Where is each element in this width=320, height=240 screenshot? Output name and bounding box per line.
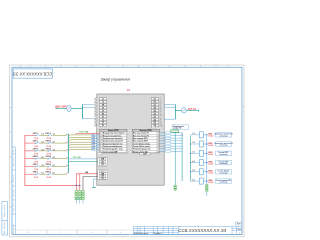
svg-text:Подп. и дата: Подп. и дата — [4, 204, 6, 217]
svg-text:1,1: 1,1 — [53, 134, 55, 136]
terminal strip X1 — [75, 191, 84, 200]
paper trim border — [10, 65, 245, 237]
svg-text:Q6: Q6 — [153, 113, 155, 115]
zone tick right — [242, 106, 244, 108]
svg-text:КМ2.2: КМ2.2 — [46, 141, 51, 143]
svg-text:Q2: Q2 — [153, 102, 155, 104]
harness exit wire 6 — [68, 147, 70, 148]
svg-text:КМ3.2: КМ3.2 — [46, 148, 51, 150]
svg-text:5: 5 — [158, 143, 159, 145]
description box KM5 — [216, 170, 232, 174]
svg-text:КМ2.1: КМ2.1 — [33, 141, 38, 143]
bundle entry stub row 1 — [66, 134, 69, 136]
right power bus — [174, 104, 176, 119]
svg-text:5,3: 5,3 — [41, 165, 43, 167]
wire socket out — [186, 110, 198, 112]
svg-text:Клапан КЗР1: Клапан КЗР1 — [219, 152, 229, 154]
wire 24V supply branch — [68, 158, 97, 160]
svg-text:107: 107 — [92, 149, 95, 151]
wire row KM5 feed — [25, 165, 35, 167]
junction dots output buses — [182, 134, 192, 172]
wire coil KM4 to common — [203, 162, 207, 164]
svg-text:Q7: Q7 — [153, 116, 155, 118]
junction dot 1 — [76, 185, 77, 186]
bundle entry stub row 6 — [66, 173, 69, 175]
svg-text:Входы (ПЛК): Входы (ПЛК) — [108, 130, 119, 132]
svg-text:13 14: 13 14 — [34, 176, 39, 179]
svg-text:А1-А2: А1-А2 — [208, 153, 213, 156]
outer margin stamp column — [2, 202, 8, 236]
wire 0V from PLC — [83, 177, 98, 200]
svg-text:Шкаф управления: Шкаф управления — [101, 78, 131, 82]
description box KM3 — [216, 151, 232, 155]
svg-text:6,1: 6,1 — [53, 173, 55, 175]
description box KM6 — [216, 179, 232, 183]
wire coil KM6 to common — [203, 180, 207, 182]
auxiliary contact KM1.1 — [35, 134, 40, 136]
red 24V bus — [25, 135, 80, 185]
harness exit wire 3 — [68, 140, 70, 141]
description box KM4 — [216, 160, 232, 164]
svg-text:Q1: Q1 — [153, 99, 155, 101]
svg-text:8: 8 — [158, 151, 159, 153]
svg-text:4: 4 — [138, 66, 139, 68]
svg-text:1,3: 1,3 — [41, 134, 43, 136]
wiring harness bundle — [67, 134, 69, 173]
svg-text:5: 5 — [160, 110, 161, 112]
svg-text:Клеммная кол.: Клеммная кол. — [173, 126, 185, 128]
svg-text:Инв. № подл.: Инв. № подл. — [3, 221, 6, 234]
wire to coil KM2 — [191, 143, 200, 145]
svg-text:3: 3 — [158, 138, 159, 140]
svg-text:7: 7 — [101, 149, 102, 151]
svg-text:Подп. и дата: Подп. и дата — [13, 202, 15, 212]
power bus node — [82, 104, 84, 119]
wire row KM6 feed — [25, 173, 35, 175]
svg-text:3: 3 — [95, 104, 96, 106]
svg-text:7: 7 — [45, 66, 46, 68]
small box A3 — [152, 126, 156, 128]
svg-text:Q9: Q9 — [153, 122, 155, 124]
svg-text:контактор: контактор — [220, 163, 228, 165]
auxiliary contact KM6.2 — [48, 173, 53, 175]
wire tag 7 — [92, 149, 97, 151]
svg-text:Y1: Y1 — [102, 119, 104, 121]
auxiliary contact KM6.1 — [35, 173, 40, 175]
svg-text:1: 1 — [228, 66, 229, 68]
svg-text:Взам. инв.: Взам. инв. — [13, 174, 15, 182]
output bus 1 — [181, 133, 183, 181]
svg-text:Q3: Q3 — [153, 105, 155, 107]
socket XS1 — [182, 108, 187, 113]
wire row KM1 to bundle — [52, 134, 65, 136]
ground symbol — [92, 186, 96, 188]
zone ticks top — [30, 65, 216, 67]
wire row KM1 feed — [25, 134, 35, 136]
auxiliary contact KM2.2 — [48, 142, 53, 144]
wire breaker to bus — [71, 108, 83, 110]
wire 24V drop 1 — [75, 174, 77, 198]
COM cell — [139, 153, 150, 155]
harness exit wire 5 — [68, 145, 70, 146]
svg-text:А1: А1 — [127, 89, 131, 92]
wire row KM4 to bundle — [52, 158, 65, 160]
earth terminal 1 — [174, 185, 176, 190]
svg-text:L1: L1 — [102, 99, 104, 101]
svg-text:Вых. клапана КЗР2: Вых. клапана КЗР2 — [133, 141, 148, 143]
wire row KM4 mid — [40, 158, 48, 160]
title block — [134, 226, 243, 234]
svg-text:4,2: 4,2 — [192, 160, 194, 163]
svg-text:23 24: 23 24 — [46, 153, 51, 156]
svg-text:Вход датчика давления: Вход датчика давления — [103, 135, 121, 137]
wire to coil KM3 — [191, 152, 200, 154]
svg-text:2: 2 — [200, 66, 201, 68]
svg-text:ХТ2:1 24В: ХТ2:1 24В — [79, 131, 88, 134]
wire row KM2 feed — [25, 142, 35, 144]
small box X1 — [98, 153, 102, 155]
wire bus1 to earth — [174, 132, 176, 191]
svg-text:8: 8 — [160, 119, 161, 121]
svg-text:23 24: 23 24 — [46, 168, 51, 171]
wire row KM5 to bundle — [52, 165, 65, 167]
svg-text:контактор: контактор — [220, 135, 228, 137]
PLC controller A1 — [97, 94, 164, 185]
wire row KM3 to bundle — [52, 150, 65, 152]
relay coil KM6 — [199, 178, 203, 184]
svg-text:7: 7 — [160, 116, 161, 118]
wire to coil KM1 — [191, 134, 200, 136]
svg-text:5: 5 — [120, 232, 121, 234]
harness exit wire 2 — [68, 137, 70, 138]
svg-text:контактор: контактор — [220, 154, 228, 156]
svg-text:А1-А2: А1-А2 — [208, 135, 213, 138]
svg-text:6: 6 — [76, 66, 77, 68]
wire row KM3 mid — [40, 150, 48, 152]
svg-text:2: 2 — [158, 135, 159, 137]
description box KM1 — [216, 133, 232, 137]
wire tag 5 — [92, 144, 97, 146]
svg-text:А1-А2: А1-А2 — [208, 144, 213, 147]
svg-text:ССБ.ХХХХХХ.ХХ ЭЗ: ССБ.ХХХХХХ.ХХ ЭЗ — [13, 72, 53, 77]
margin column labels — [13, 148, 15, 233]
svg-text:5,1: 5,1 — [53, 165, 55, 167]
svg-text:А1-А2: А1-А2 — [208, 162, 213, 165]
svg-text:Q4: Q4 — [153, 106, 155, 109]
terminal XT4 — [170, 130, 178, 132]
svg-text:ССБ.ХХХХХХХХ.ХХ ЭЗ: ССБ.ХХХХХХХХ.ХХ ЭЗ — [178, 228, 226, 233]
wire row KM1 mid — [40, 134, 48, 136]
svg-text:3,2: 3,2 — [192, 152, 194, 154]
wire row KM4 feed — [25, 158, 35, 160]
PLC output terminal table — [132, 129, 159, 153]
wire row KM5 mid — [40, 165, 48, 167]
bundle entry stub row 4 — [66, 157, 69, 159]
wire 24V to input table — [75, 132, 100, 134]
svg-text:КМ6.2: КМ6.2 — [46, 172, 51, 174]
svg-text:Контроль цепи насоса Н2: Контроль цепи насоса Н2 — [103, 141, 123, 143]
title block row labels — [134, 232, 162, 235]
svg-text:КМ5.2: КМ5.2 — [46, 164, 51, 166]
svg-text:3: 3 — [160, 104, 161, 106]
svg-text:5: 5 — [95, 110, 96, 112]
svg-text:1: 1 — [160, 99, 161, 101]
wire tag 3 — [92, 139, 97, 141]
svg-text:Вых. пуск насоса Н1: Вых. пуск насоса Н1 — [133, 133, 149, 135]
junction dot 2 — [79, 185, 80, 186]
svg-text:КМ4.2: КМ4.2 — [46, 155, 51, 158]
wire tag 4 — [92, 141, 97, 143]
svg-text:4,3: 4,3 — [41, 156, 43, 159]
svg-text:Управление насосом Н1: Управление насосом Н1 — [214, 134, 233, 136]
svg-text:7: 7 — [60, 232, 61, 234]
svg-text:Спр.: Спр. — [13, 148, 15, 152]
svg-text:13 14: 13 14 — [34, 153, 39, 156]
wire coil KM2 to common — [203, 143, 207, 145]
wire to socket — [175, 110, 181, 112]
svg-text:КМ1.2: КМ1.2 — [46, 133, 51, 135]
svg-text:9: 9 — [95, 122, 96, 124]
svg-text:6: 6 — [91, 232, 92, 234]
svg-text:КМ6.1: КМ6.1 — [33, 172, 38, 174]
wire to pin PE — [83, 118, 95, 120]
svg-text:8: 8 — [28, 232, 29, 234]
small box A2 — [97, 126, 100, 128]
svg-text:5: 5 — [101, 143, 102, 145]
wire tag 1 — [92, 134, 97, 136]
PLC input terminal table — [100, 129, 127, 153]
harness exit wire 4 — [68, 142, 70, 143]
svg-text:X1: X1 — [102, 116, 104, 118]
svg-text:1: 1 — [158, 133, 159, 135]
svg-text:6: 6 — [158, 146, 159, 148]
auxiliary contact KM2.1 — [35, 142, 40, 144]
svg-text:А1-А2: А1-А2 — [208, 172, 213, 175]
svg-text:Инв. дубл.: Инв. дубл. — [13, 189, 15, 197]
svg-text:Выходы (ПЛК): Выходы (ПЛК) — [140, 130, 153, 132]
auxiliary contact KM3.2 — [48, 150, 53, 152]
svg-text:1,2: 1,2 — [192, 133, 194, 135]
svg-text:2,2: 2,2 — [192, 142, 194, 144]
right pin wires — [164, 104, 175, 119]
svg-text:2,1: 2,1 — [53, 141, 55, 143]
wire to pin N — [83, 106, 95, 108]
svg-text:13 14: 13 14 — [34, 145, 39, 148]
relay coil KM1 — [199, 132, 203, 138]
svg-text:6: 6 — [95, 113, 96, 115]
wire row KM6 to bundle — [52, 173, 65, 175]
PLC right pin boxes — [151, 98, 162, 127]
pin group 24V supply — [98, 157, 107, 166]
wire to pin L1 — [83, 103, 95, 105]
svg-text:КМ4.1: КМ4.1 — [33, 155, 38, 158]
coil common bus — [206, 135, 208, 196]
auxiliary contact KM4.1 — [35, 158, 40, 160]
relay coil KM2 — [199, 141, 203, 147]
svg-text:4,1: 4,1 — [53, 156, 55, 159]
svg-text:10: 10 — [160, 125, 162, 127]
svg-text:13 14: 13 14 — [34, 137, 39, 140]
wire PE to ground — [94, 179, 98, 187]
wire to coil KM6 — [191, 180, 200, 182]
terminal strip on common bus — [206, 185, 208, 192]
svg-text:ЩВУ-АВР1: ЩВУ-АВР1 — [55, 106, 68, 109]
wire coil KM3 to common — [203, 152, 207, 154]
svg-text:КМ5.1: КМ5.1 — [33, 164, 38, 166]
svg-text:1: 1 — [101, 133, 102, 135]
zone ticks bottom — [12, 229, 134, 231]
svg-text:Вых. клапана КЗР1: Вых. клапана КЗР1 — [133, 138, 148, 140]
wire row KM2 mid — [40, 142, 48, 144]
outer margin labels — [3, 204, 6, 234]
svg-text:23 24: 23 24 — [46, 160, 51, 163]
wire to coil KM4 — [191, 162, 200, 164]
svg-text:3: 3 — [169, 66, 170, 68]
svg-text:5,2: 5,2 — [192, 170, 194, 172]
svg-text:8: 8 — [20, 66, 21, 68]
svg-text:Лист: Лист — [237, 223, 241, 225]
svg-text:5: 5 — [107, 66, 108, 68]
svg-text:23 24: 23 24 — [46, 176, 51, 179]
bundle entry stub row 3 — [66, 149, 69, 151]
svg-text:Контроль цепи насоса Н1: Контроль цепи насоса Н1 — [103, 138, 123, 140]
svg-text:Подп. и дата: Подп. и дата — [13, 157, 15, 167]
margin info column — [12, 147, 15, 235]
wire tag 6 — [92, 146, 97, 148]
svg-text:8: 8 — [95, 119, 96, 121]
auxiliary contact KM5.1 — [35, 165, 40, 167]
svg-text:Лист: Лист — [238, 229, 242, 231]
svg-text:13 14: 13 14 — [34, 160, 39, 163]
svg-text:7: 7 — [95, 116, 96, 118]
harness exit wire 1 — [68, 135, 70, 136]
svg-text:P1: P1 — [102, 125, 104, 127]
bundle entry stub row 2 — [66, 141, 69, 143]
auxiliary contact KM3.1 — [35, 150, 40, 152]
svg-text:V1: V1 — [102, 110, 104, 112]
bundle entry stub row 5 — [66, 165, 69, 167]
svg-text:3,1: 3,1 — [53, 149, 55, 151]
svg-text:Управление насосом Н2: Управление насосом Н2 — [214, 143, 233, 145]
svg-text:6: 6 — [160, 113, 161, 115]
wire coil KM5 to common — [203, 171, 207, 173]
wire tail 3 — [82, 200, 84, 203]
relay coil KM3 — [199, 150, 203, 156]
wire input feed — [56, 108, 67, 110]
wire coil KM1 to common — [203, 134, 207, 136]
relay coil KM4 — [199, 160, 203, 166]
wire tail 1 — [75, 198, 77, 204]
svg-text:13 14: 13 14 — [34, 168, 39, 171]
svg-text:Q5: Q5 — [153, 110, 155, 112]
svg-text:U1: U1 — [102, 107, 104, 109]
svg-text:Дата: Дата — [158, 233, 162, 235]
svg-text:23 24: 23 24 — [46, 145, 51, 148]
svg-text:W1: W1 — [102, 113, 105, 115]
wire row KM2 to bundle — [52, 142, 65, 144]
wire row KM3 feed — [25, 150, 35, 152]
svg-text:Инв. подл.: Инв. подл. — [13, 226, 15, 234]
svg-text:6,2: 6,2 — [192, 179, 194, 181]
wire tail 2 — [79, 198, 81, 204]
svg-text:2,3: 2,3 — [41, 141, 43, 143]
svg-text:контактор: контактор — [220, 172, 228, 174]
document designation stamp (rotated) — [13, 69, 52, 78]
svg-text:23 24: 23 24 — [46, 137, 51, 140]
svg-text:6,3: 6,3 — [41, 173, 43, 175]
svg-text:Клапан КЗР2: Клапан КЗР2 — [219, 161, 229, 163]
drawing frame — [12, 67, 242, 234]
svg-text:контактор: контактор — [220, 145, 228, 147]
wire 24V from PLC — [76, 173, 97, 175]
wire to coil KM5 — [191, 171, 200, 173]
description box KM2 — [216, 142, 232, 146]
PLC left pin boxes — [94, 98, 106, 127]
svg-text:6: 6 — [101, 146, 102, 148]
svg-text:7: 7 — [158, 149, 159, 151]
auxiliary contact KM1.2 — [48, 134, 53, 136]
auxiliary contact KM5.2 — [48, 165, 53, 167]
auxiliary contact KM4.2 — [48, 158, 53, 160]
svg-text:Q8: Q8 — [153, 119, 155, 121]
svg-text:КМ1.1: КМ1.1 — [33, 133, 38, 135]
output bus 2 — [190, 136, 192, 182]
svg-text:2: 2 — [160, 101, 161, 103]
wire tag 2 — [92, 136, 97, 138]
relay coil KM5 — [199, 169, 203, 175]
svg-text:3: 3 — [101, 138, 102, 140]
svg-text:контактор: контактор — [220, 182, 228, 184]
svg-text:1: 1 — [95, 99, 96, 101]
harness exit wire 7 — [68, 150, 70, 151]
wire row KM6 mid — [40, 173, 48, 175]
output wires from table — [159, 132, 182, 153]
pin group power output — [98, 169, 107, 180]
zone ticks left — [10, 108, 13, 208]
wire 24V drop 2 — [79, 174, 81, 198]
svg-text:3,3: 3,3 — [41, 149, 43, 151]
svg-text:2: 2 — [101, 135, 102, 137]
sheet cell above — [236, 222, 242, 226]
svg-text:ХТ1:2 0В: ХТ1:2 0В — [73, 157, 81, 159]
circuit breaker QF1 — [67, 106, 71, 112]
svg-text:Z1: Z1 — [102, 122, 104, 124]
svg-text:А1-А2: А1-А2 — [208, 181, 213, 184]
svg-text:9: 9 — [160, 122, 161, 124]
svg-text:1: 1 — [238, 225, 239, 227]
svg-text:КМ3.1: КМ3.1 — [33, 148, 38, 150]
svg-text:2: 2 — [95, 101, 96, 103]
svg-text:Вых. пуск насоса Н2: Вых. пуск насоса Н2 — [133, 135, 149, 137]
wire 0V supply branch — [68, 161, 97, 163]
note box — [172, 125, 189, 129]
